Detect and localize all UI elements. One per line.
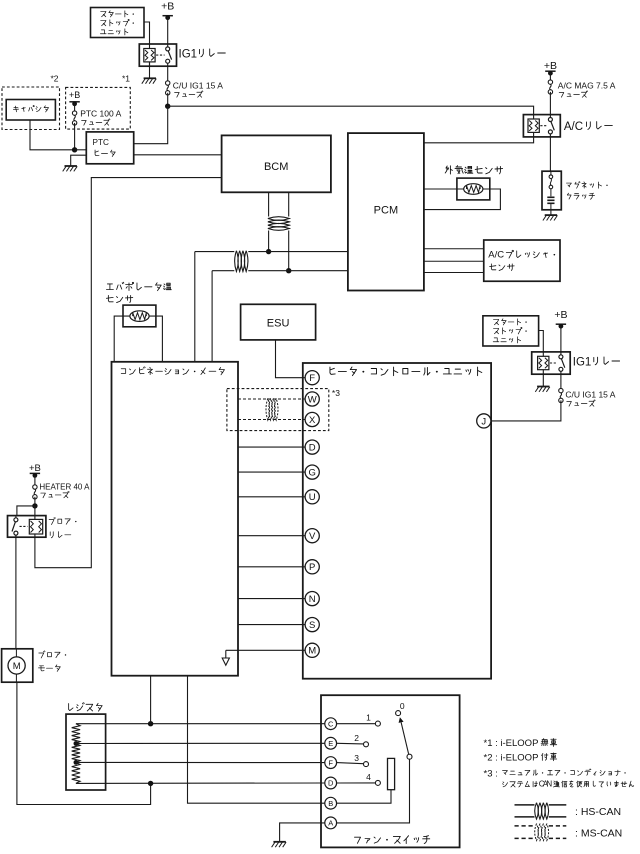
relay IG1 no.1 contact dashes [156, 54, 165, 56]
ground magnet clutch [543, 215, 558, 220]
svg-text:IG1: IG1 [179, 48, 198, 60]
resistor chain R3 [72, 762, 80, 783]
pin U heater control unit [305, 490, 319, 504]
BCM box [222, 135, 331, 192]
svg-text:W: W [308, 394, 317, 405]
wire CAN-L to combination meter [211, 271, 213, 362]
magnet clutch box [542, 171, 561, 210]
blower motor box [2, 649, 33, 682]
wire resistor bottom to fan D [76, 782, 325, 784]
svg-text:*1: *1 [122, 74, 130, 84]
node CAN-H dot [266, 249, 271, 254]
relay IG1 no.2 switch [559, 355, 563, 359]
twisted pair BCM (HS-CAN) [268, 217, 290, 231]
svg-text:*1 : i-ELOOP: *1 : i-ELOOP [484, 738, 539, 749]
thermistor evaporator sensor [130, 311, 149, 322]
contact 4 [366, 772, 380, 785]
svg-text:M: M [13, 661, 21, 672]
svg-text:A: A [328, 819, 333, 828]
wire fan E to contact 2 [337, 742, 364, 745]
svg-text:C/U IG1 15 A: C/U IG1 15 A [565, 390, 615, 400]
ambient sensor box [457, 178, 490, 200]
relay IG1 no.1 pin stubs [150, 44, 168, 66]
svg-text:+B: +B [29, 463, 41, 474]
wire evaporator sensor right to meter [156, 316, 163, 362]
wire IG1 relay 2 switch to fuse 2 [560, 374, 562, 388]
wire evaporator sensor left to meter [114, 316, 156, 362]
pin X heater control unit [305, 412, 319, 426]
resistor chain R2 [72, 744, 80, 763]
svg-text:+B: +B [161, 1, 174, 13]
wire blower relay to blower motor [15, 537, 17, 649]
fuse A/C MAG 7.5A [548, 80, 552, 94]
node CAN-L dot [286, 268, 291, 273]
svg-text:G: G [309, 468, 316, 479]
wire CAN-H to combination meter [194, 252, 196, 362]
ground IG1 relay 2 [535, 387, 550, 392]
svg-text:CAN: CAN [539, 780, 553, 789]
wire PCM to pressure sensor 3 [424, 272, 484, 274]
wire resistor tap2 to fan E [76, 742, 325, 744]
pin W heater control unit [305, 392, 319, 406]
svg-text:A/C: A/C [564, 121, 583, 133]
wire BCM CAN-H down [268, 192, 270, 216]
svg-text:C/U IG1 15 A: C/U IG1 15 A [173, 81, 223, 91]
pin V heater control unit [305, 529, 319, 543]
svg-text:E: E [328, 739, 333, 748]
wire meter pin1 down [150, 676, 152, 724]
wire +B3 to A/C MAG fuse [549, 73, 551, 81]
label IG1 relay 1 [179, 48, 226, 60]
relay IG1 no.2 coil [538, 356, 549, 369]
label fuse PTC 100A [80, 109, 121, 126]
wire node B to PTC heater [75, 149, 87, 151]
svg-text:X: X [309, 415, 316, 426]
svg-text:*3: *3 [332, 388, 340, 398]
label magnet clutch [566, 182, 607, 200]
node motor-tap dot [148, 781, 153, 786]
fuse C/U IG1 15A no.1 [166, 81, 170, 95]
+B supply 1 (IG1 relay) [161, 1, 174, 21]
svg-text:0: 0 [400, 701, 405, 711]
wire pivot to pin A [337, 759, 410, 823]
wire node A to A/C relay coil (top bus) [168, 106, 534, 114]
dashed option box *3 (MS-CAN) [227, 389, 329, 431]
svg-text:*2 : i-ELOOP: *2 : i-ELOOP [484, 752, 539, 763]
blower relay contact dashes [20, 525, 28, 527]
svg-text:D: D [309, 443, 316, 454]
svg-text:C: C [328, 719, 334, 728]
relay A/C box [523, 115, 560, 137]
svg-text:: HS-CAN: : HS-CAN [575, 806, 621, 818]
pin S heater control unit [305, 618, 319, 632]
wire +B5 to HEATER fuse [34, 475, 36, 485]
note *1 i-ELOOP [484, 738, 557, 749]
fuse C/U IG1 15A no.2 [559, 388, 563, 402]
wires meter to heater unit D G U V P N S [238, 446, 305, 448]
label IG1 relay 2 [573, 356, 620, 368]
+B supply 3 (A/C relay) [544, 60, 557, 76]
rotor arm with arrow [399, 717, 409, 754]
relay IG1 no.2 contact dashes [550, 362, 558, 364]
wire resistor tap3 to fan F [76, 761, 325, 763]
svg-text:3: 3 [354, 753, 359, 763]
label fan switch [354, 836, 429, 844]
wire PTC heater to BCM [134, 154, 222, 156]
svg-text:D: D [328, 779, 334, 788]
wire A/C relay to magnet clutch [549, 137, 551, 171]
fan switch box [321, 695, 460, 847]
ground PTC heater [63, 166, 77, 171]
wire fan D to contact 4 [337, 782, 376, 784]
contact 2 [354, 733, 368, 747]
node resistor tap3 dot [74, 760, 79, 765]
blower relay coil [29, 519, 42, 534]
wire +B2 to fuse PTC [74, 103, 76, 111]
node C junction dot [32, 503, 37, 508]
pin D fan switch [325, 777, 337, 789]
wire PCM to A/C relay coil [424, 137, 534, 143]
svg-text:HEATER 40 A: HEATER 40 A [39, 483, 90, 492]
PTC heater box [86, 132, 133, 164]
evaporator temp sensor label [106, 282, 171, 302]
svg-text:P: P [309, 562, 315, 573]
wire PCM to pressure sensor 2 [424, 260, 484, 262]
label A/C relay [564, 121, 612, 133]
relay A/C switch [548, 118, 552, 122]
wire inside ambient sensor [0, 0, 1, 1]
wire fuse 1 to node A [167, 93, 169, 106]
svg-text:IG1: IG1 [573, 356, 592, 368]
label fuse A/C MAG 7.5A [558, 80, 616, 97]
wire X dashed (MS-CAN) [238, 419, 305, 421]
wire M from internal node [226, 649, 305, 651]
pin P heater control unit [305, 560, 319, 574]
svg-text:*2: *2 [50, 74, 58, 84]
svg-text:2: 2 [354, 733, 359, 743]
pin E fan switch [325, 737, 337, 749]
relay A/C pin stubs [534, 115, 551, 137]
svg-text:*3 :: *3 : [484, 768, 498, 779]
svg-text:J: J [481, 416, 486, 427]
pin J heater control unit [477, 414, 491, 428]
fuse HEATER 40A [33, 485, 37, 499]
relay IG1 no.2 pin stubs [543, 352, 561, 374]
node B junction dot [72, 147, 77, 152]
svg-text:U: U [309, 492, 316, 503]
svg-text:F: F [328, 758, 333, 767]
dashed option box *2 (capacitor) [2, 87, 60, 130]
pin C fan switch [325, 718, 337, 730]
legend HS-CAN symbol [515, 803, 567, 819]
wire HEATER fuse to node C [34, 497, 36, 506]
svg-text:V: V [309, 531, 316, 542]
svg-text:+B: +B [544, 60, 557, 72]
wire PCM to ambient sensor [424, 188, 490, 190]
wire resistor top tap to fan C [76, 723, 325, 725]
evaporator sensor box [123, 305, 156, 327]
svg-text:+B: +B [69, 90, 80, 100]
+B supply 2 (PTC) [69, 90, 80, 106]
wire fan resistor to pin B [337, 790, 391, 804]
contact 0 [396, 701, 405, 715]
svg-text:PCM: PCM [374, 205, 398, 217]
svg-text:ESU: ESU [267, 317, 290, 329]
wire +B to IG1 relay switch [167, 17, 169, 44]
wire start/stop unit 1 to IG1 relay coil [144, 22, 150, 44]
label blower motor [38, 651, 66, 672]
pin F heater control unit [305, 371, 319, 385]
wire node A down to PTC heater [134, 106, 168, 144]
magnet clutch contacts and coil [547, 171, 554, 210]
contact 1 [366, 713, 380, 727]
wire CAN-L bus to PCM [248, 270, 348, 272]
rotor pivot contact [407, 754, 412, 759]
resistor chain R1 [72, 724, 80, 744]
wire IG1 relay coil to ground [149, 62, 151, 78]
relay A/C coil [528, 119, 539, 132]
heater control unit box [303, 363, 491, 679]
wire A/C MAG fuse to A/C relay [549, 92, 551, 115]
pin M heater control unit [305, 643, 319, 657]
ESU box [241, 304, 316, 340]
relay IG1 no.1 coil [144, 49, 155, 62]
pin A fan switch [325, 817, 337, 829]
wire ambient sensor loop to PCM [424, 189, 501, 210]
wire magnet clutch to ground [550, 210, 552, 215]
resistor element in fan switch [388, 758, 395, 789]
PCM box [348, 133, 424, 290]
svg-text:PTC 100 A: PTC 100 A [80, 109, 121, 119]
svg-text:+B: +B [554, 309, 567, 321]
svg-text:M: M [308, 646, 316, 657]
blower relay switch [14, 518, 18, 522]
pin F fan switch [325, 757, 337, 769]
wire meter pin2 to fan B [188, 676, 325, 804]
wire blower motor to resistor node [17, 682, 151, 804]
svg-text:A/C MAG 7.5 A: A/C MAG 7.5 A [558, 80, 616, 90]
fuse PTC 100A [72, 111, 76, 125]
svg-text:BCM: BCM [264, 161, 288, 173]
+B supply 4 (IG1 relay 2) [554, 309, 567, 329]
wire fuse PTC to node B [74, 123, 76, 150]
svg-text:N: N [309, 594, 316, 605]
blower relay box [8, 516, 46, 538]
label fuse C/U IG1 15A no.2 [565, 390, 615, 407]
wire BCM to blower relay coil (long left path) [35, 178, 222, 568]
note *3 manual A/C line 1 [484, 768, 626, 779]
node meter-resistor dot [148, 721, 153, 726]
+B supply 5 (heater fuse) [29, 463, 41, 478]
wire pin A to ground [280, 823, 325, 842]
pin D heater control unit [305, 440, 319, 454]
wire start/stop unit 2 to IG1 relay 2 coil [539, 331, 544, 352]
pin N heater control unit [305, 592, 319, 606]
ground IG1 relay 1 [142, 78, 157, 83]
wire capacitor to PTC node [30, 120, 75, 150]
relay IG1 no.1 switch [166, 47, 170, 51]
wire IG1 relay switch to fuse [167, 66, 169, 81]
svg-text:PTC: PTC [93, 138, 109, 147]
contact 3 [354, 753, 368, 767]
relay IG1 no.2 box [532, 352, 571, 374]
note *2 i-ELOOP [484, 752, 557, 763]
thermistor ambient sensor [464, 184, 483, 195]
wire PTC heater to ground [71, 155, 87, 166]
start/stop unit box 2 [483, 316, 539, 346]
wire CAN-H bus to PCM [248, 251, 348, 253]
svg-text:F: F [309, 373, 315, 384]
svg-text:S: S [309, 620, 315, 631]
triangle node symbol in meter [222, 650, 229, 665]
node A junction dot [165, 104, 170, 109]
wire ESU to heater control unit pin F [276, 340, 306, 378]
start/stop unit box 1 (top-left) [91, 8, 145, 38]
wire W dashed (MS-CAN) [238, 398, 305, 400]
wire fuse 2 to pin J [491, 400, 561, 421]
wire fan C to contact 1 [337, 723, 376, 725]
svg-text:1: 1 [366, 713, 371, 723]
capacitor box [6, 100, 55, 121]
combination meter box [112, 362, 239, 676]
wire IG1 relay 2 coil to ground [542, 374, 544, 386]
svg-text:B: B [328, 799, 333, 808]
pin B fan switch [325, 797, 337, 809]
label ambient temperature sensor [445, 166, 502, 174]
ground fan switch [272, 842, 287, 847]
wire node C to blower relay switch [17, 506, 35, 516]
wire +B4 to IG1 relay 2 switch [560, 326, 562, 352]
legend MS-CAN symbol [515, 824, 567, 841]
twisted pair meter-PCM (HS-CAN) [235, 251, 248, 272]
svg-text:: MS-CAN: : MS-CAN [575, 828, 622, 840]
label fuse HEATER 40A [39, 483, 90, 498]
node resistor tap2 dot [74, 741, 79, 746]
label fuse C/U IG1 15A no.1 [173, 81, 223, 98]
pin G heater control unit [305, 465, 319, 479]
resistor box [66, 714, 106, 790]
wire node C to blower relay coil [34, 506, 36, 516]
svg-text:4: 4 [366, 772, 371, 782]
wire BCM CAN-L down [288, 192, 290, 216]
svg-text:A/C: A/C [488, 249, 504, 260]
relay A/C contact dashes [540, 125, 547, 127]
wire fan F to contact 3 [337, 763, 364, 764]
twisted pair MS-CAN W/X [266, 398, 278, 420]
A/C pressure sensor box [484, 240, 560, 281]
relay IG1 no.1 box [139, 44, 176, 66]
note *3 manual A/C line 2 [503, 780, 634, 789]
label resistor [69, 703, 103, 712]
blower relay pin stubs [16, 516, 35, 538]
label blower relay [49, 517, 76, 537]
wire PCM to pressure sensor 1 [424, 248, 484, 250]
dashed option box *1 (PTC fuse) [66, 87, 131, 129]
